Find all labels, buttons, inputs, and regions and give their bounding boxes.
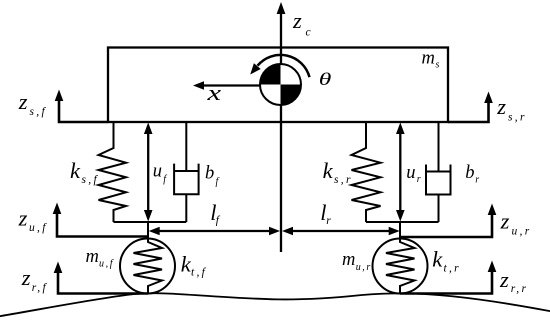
svg-text:k: k bbox=[432, 247, 443, 272]
svg-text:f: f bbox=[216, 176, 220, 187]
svg-text:s,f: s,f bbox=[30, 106, 47, 118]
svg-text:z: z bbox=[499, 267, 509, 292]
svg-text:z: z bbox=[292, 8, 302, 33]
svg-text:z: z bbox=[18, 89, 28, 114]
svg-text:f: f bbox=[216, 214, 222, 226]
svg-text:m: m bbox=[86, 247, 99, 267]
svg-text:u: u bbox=[153, 162, 162, 182]
svg-text:k: k bbox=[70, 158, 81, 183]
svg-text:z: z bbox=[21, 265, 31, 290]
svg-text:θ: θ bbox=[319, 69, 332, 89]
svg-text:c: c bbox=[306, 27, 313, 39]
svg-text:k: k bbox=[323, 158, 334, 183]
svg-text:m: m bbox=[342, 250, 355, 270]
svg-text:z: z bbox=[500, 208, 510, 233]
svg-text:f: f bbox=[163, 174, 167, 185]
svg-text:s,r: s,r bbox=[508, 112, 527, 124]
svg-text:t,r: t,r bbox=[444, 263, 461, 275]
svg-text:x: x bbox=[206, 80, 221, 105]
svg-text:t,f: t,f bbox=[191, 267, 207, 279]
svg-text:s,r: s,r bbox=[334, 174, 353, 186]
svg-text:s,f: s,f bbox=[82, 174, 99, 186]
svg-text:u,r: u,r bbox=[356, 262, 372, 273]
svg-text:s: s bbox=[436, 60, 442, 71]
svg-text:r: r bbox=[475, 175, 481, 186]
svg-text:u,f: u,f bbox=[29, 222, 48, 234]
svg-text:z: z bbox=[496, 94, 506, 119]
svg-text:z: z bbox=[18, 205, 28, 230]
svg-text:r,f: r,f bbox=[32, 282, 48, 294]
svg-text:b: b bbox=[465, 163, 474, 183]
svg-text:r: r bbox=[326, 215, 333, 227]
svg-text:r: r bbox=[417, 174, 423, 185]
svg-text:m: m bbox=[422, 48, 435, 68]
svg-text:b: b bbox=[205, 164, 214, 184]
svg-text:u: u bbox=[406, 163, 415, 183]
svg-text:u,r: u,r bbox=[512, 226, 532, 238]
svg-text:r,r: r,r bbox=[511, 283, 528, 295]
svg-text:u,f: u,f bbox=[99, 259, 114, 270]
